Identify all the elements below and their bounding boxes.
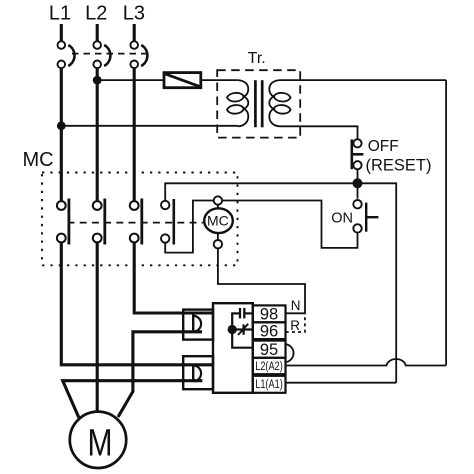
terminal box L1(A1) [253, 376, 286, 393]
overload NC contact to 96 [232, 324, 253, 335]
node L2 label [85, 3, 107, 25]
label N [291, 298, 301, 313]
svg-text:MC: MC [23, 149, 54, 171]
label OFF [368, 138, 399, 155]
svg-text:(RESET): (RESET) [366, 157, 432, 175]
junction dot overload common [228, 325, 237, 334]
terminal box 98 [253, 305, 286, 323]
wire MC coil bottom to overload 98 [218, 248, 305, 313]
junction dot below OFF [353, 178, 363, 188]
contactor MC dotted box [42, 173, 238, 266]
breaker pole 3 [130, 41, 147, 68]
motor M1 [70, 412, 126, 468]
wire L3 breaker to contactor [133, 68, 136, 201]
svg-text:OFF: OFF [368, 138, 399, 155]
wire L1(A1) to right drop [286, 382, 397, 384]
wire L2 breaker to contactor [96, 68, 99, 201]
bridge 95 to A2 arc [286, 344, 294, 362]
terminal box 95 [253, 341, 286, 359]
svg-text:L1: L1 [49, 3, 71, 25]
wire transformer secondary bottom to OFF button [280, 126, 358, 139]
wire heater return to motor left [63, 381, 203, 418]
svg-text:M: M [88, 423, 113, 465]
wire junction to aux contact [165, 183, 357, 201]
overload relay main block [213, 303, 253, 393]
contactor auxiliary contact [161, 199, 174, 245]
transformer primary winding [227, 80, 248, 126]
wire junction to right drop [358, 183, 397, 382]
label MC contactor [23, 149, 54, 171]
svg-text:ON: ON [331, 210, 353, 226]
transformer secondary winding [269, 80, 290, 126]
transformer core bars [255, 80, 262, 127]
wire transformer secondary top to right rail [280, 79, 446, 81]
contactor mechanical link dashed line [68, 222, 204, 224]
terminal box 96 [253, 322, 286, 340]
junction dot on L2 [93, 76, 102, 85]
contactor main contact pole 1 [57, 199, 69, 245]
pushbutton OFF (NC) [352, 139, 364, 169]
wire heater return to motor right [118, 332, 202, 417]
wire L2 tap to fuse [97, 79, 164, 81]
coil MC [204, 196, 233, 248]
svg-text:MC: MC [207, 213, 229, 229]
wire right rail vertical [445, 80, 447, 365]
wire OFF bottom to junction [357, 169, 359, 198]
contactor main contact pole 3 [130, 199, 142, 245]
wire L2 contactor to motor [96, 242, 99, 412]
wire L2(A2) to right rail with hop [286, 359, 447, 366]
svg-text:R: R [290, 318, 300, 333]
contactor main contact pole 2 [93, 199, 105, 245]
wire L3 supply stub [133, 24, 136, 41]
pushbutton ON (NO) [353, 200, 378, 233]
svg-text:95: 95 [260, 341, 278, 359]
junction dot on L1 [57, 121, 66, 130]
label ON [331, 210, 353, 226]
wire aux bottom to MC coil top [165, 201, 214, 253]
transformer T1 dashed box [217, 70, 300, 137]
wire fuse to transformer primary [201, 79, 238, 81]
node L1 label [49, 3, 71, 25]
wire ON bottom to MC coil top [222, 201, 357, 248]
node L3 label [123, 3, 145, 25]
terminal box L2(A2) [253, 358, 286, 374]
svg-text:N: N [291, 298, 301, 313]
transformer Tr label [248, 50, 266, 67]
wire L1 breaker to contactor [60, 68, 63, 201]
svg-text:Tr.: Tr. [248, 50, 266, 67]
svg-text:L1(A1): L1(A1) [255, 379, 283, 391]
svg-text:98: 98 [260, 305, 278, 323]
svg-text:L3: L3 [123, 3, 145, 25]
wire L1 contactor to overload heater [61, 242, 213, 364]
wire L2 supply stub [96, 24, 99, 41]
breaker mechanical link dashed line [72, 53, 146, 55]
overload NO contact to 98 [231, 308, 253, 319]
overload internal common wire [232, 313, 253, 347]
breaker pole 2 [93, 41, 110, 68]
svg-text:L2: L2 [85, 3, 107, 25]
breaker pole 1 [58, 41, 75, 68]
wire L1 supply stub [60, 24, 63, 41]
svg-text:96: 96 [260, 322, 278, 340]
wire L3 contactor to heater [134, 242, 213, 313]
overload heater element bottom [183, 356, 213, 389]
fuse F [164, 73, 201, 88]
svg-text:L2(A2): L2(A2) [255, 361, 283, 373]
wire L1 tap to transformer primary bottom [61, 125, 237, 127]
overload heater element top [183, 310, 213, 340]
label RESET [366, 157, 432, 175]
label R with dots [286, 314, 305, 333]
